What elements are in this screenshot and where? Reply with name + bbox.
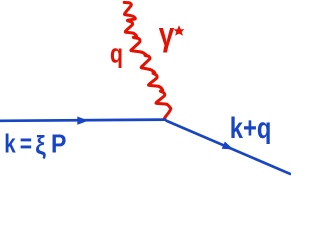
- svg-text:ξ: ξ: [35, 132, 46, 160]
- svg-text:=: =: [20, 131, 32, 159]
- svg-text:k+q: k+q: [230, 112, 272, 145]
- svg-text:k: k: [4, 131, 16, 159]
- svg-text:q: q: [110, 39, 123, 69]
- svg-text:γ: γ: [159, 16, 175, 53]
- svg-text:P: P: [51, 131, 66, 159]
